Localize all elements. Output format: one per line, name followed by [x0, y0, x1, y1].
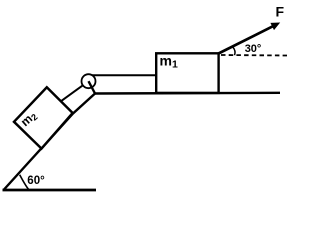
svg-text:F: F [276, 4, 285, 20]
svg-text:30°: 30° [245, 43, 262, 55]
svg-text:60°: 60° [27, 175, 45, 187]
